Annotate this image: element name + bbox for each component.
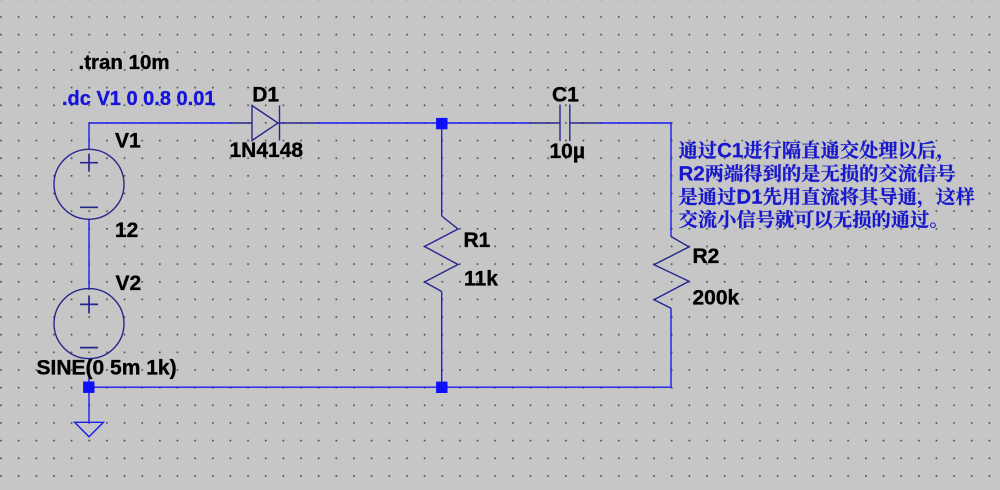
svg-text:R2: R2: [693, 245, 720, 268]
svg-text:V1: V1: [115, 129, 141, 152]
svg-text:10µ: 10µ: [550, 140, 585, 163]
svg-text:V2: V2: [116, 272, 142, 295]
svg-text:SINE(0 5m 1k): SINE(0 5m 1k): [37, 357, 177, 380]
svg-text:C1: C1: [552, 83, 579, 106]
svg-text:12: 12: [115, 219, 138, 242]
svg-text:.tran 10m: .tran 10m: [79, 51, 170, 74]
svg-text:R1: R1: [464, 229, 491, 252]
svg-text:200k: 200k: [693, 286, 740, 309]
svg-text:D1: D1: [252, 84, 279, 107]
svg-text:11k: 11k: [464, 268, 498, 291]
svg-text:.dc V1 0 0.8 0.01: .dc V1 0 0.8 0.01: [62, 88, 215, 110]
svg-text:1N4148: 1N4148: [230, 139, 304, 162]
